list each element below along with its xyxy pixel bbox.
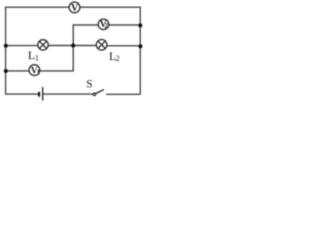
wire: lamp row left (left rail to L1): [6, 45, 39, 47]
svg-text:V: V: [71, 3, 79, 14]
switch S: [93, 90, 104, 96]
wire: switch to right rail: [106, 93, 140, 95]
node: lamp row / right rail junction: [138, 44, 142, 48]
wire: V2 branch vertical (node A up to V2 row): [73, 25, 98, 46]
svg-text:1: 1: [35, 54, 39, 63]
wire: top-left to voltmeter V: [6, 6, 70, 8]
voltmeter V: [69, 2, 80, 14]
svg-text:S: S: [86, 79, 92, 91]
node A: mid junction on lamp row: [71, 44, 75, 48]
node: lamp row / left rail junction: [4, 44, 8, 48]
wire: battery to switch: [43, 93, 93, 95]
wire: bottom left (left rail to battery): [6, 93, 39, 95]
voltmeter V2: [98, 19, 109, 30]
svg-text:2: 2: [104, 22, 108, 30]
wire: lamp row right (L2 to right rail): [107, 45, 141, 47]
svg-text:1: 1: [37, 69, 41, 76]
lamp L2: [96, 40, 107, 51]
svg-text:2: 2: [116, 54, 120, 63]
voltmeter V1: [29, 65, 41, 77]
wire: voltmeter V to top-right: [79, 6, 140, 8]
wire: right rail: [139, 7, 141, 95]
wire: V1 row right (V1 up to node A): [40, 46, 74, 71]
lamp L1: [38, 40, 48, 50]
wire: lamp row middle (L1 to L2 through node A): [48, 45, 98, 47]
battery B: [39, 87, 43, 101]
wire: V1 row left (left rail to V1): [6, 70, 30, 72]
wire: V2 to right rail: [109, 24, 141, 26]
node: V1 row / left rail junction: [4, 69, 8, 73]
wire: left rail: [5, 7, 7, 95]
node: V2 row / right rail junction: [138, 23, 142, 27]
